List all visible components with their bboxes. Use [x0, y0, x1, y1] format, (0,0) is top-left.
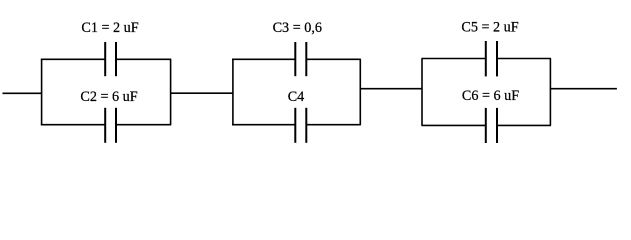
capacitor C5 — [486, 41, 497, 76]
node F (block3 right side) — [549, 59, 551, 126]
capacitor C3 — [295, 42, 306, 76]
wire block3 bottom-right — [497, 124, 551, 126]
node A (block1 left side) — [41, 59, 43, 124]
svg-text:C1 = 2 uF: C1 = 2 uF — [81, 20, 138, 36]
wire between block2 and block3 — [360, 88, 422, 90]
svg-text:C2 = 6 uF: C2 = 6 uF — [80, 89, 137, 105]
node B (block1 right side) — [170, 59, 172, 124]
wire block1 top-left — [41, 58, 105, 60]
wire block2 bottom-left — [232, 124, 295, 126]
svg-text:C5 = 2 uF: C5 = 2 uF — [461, 20, 518, 36]
wire block3 top-right — [497, 58, 551, 60]
wire input left — [3, 92, 42, 94]
node D (block2 right side) — [359, 59, 361, 124]
wire block3 top-left — [421, 58, 485, 60]
node C (block2 left side) — [232, 59, 234, 124]
wire block2 top-left — [232, 58, 295, 60]
svg-text:C6 = 6 uF: C6 = 6 uF — [462, 88, 519, 104]
wire output right — [550, 88, 617, 90]
svg-text:C3 = 0,6: C3 = 0,6 — [273, 20, 322, 36]
svg-text:C4: C4 — [288, 89, 305, 105]
capacitor C2 — [105, 108, 116, 143]
capacitor C4 — [295, 108, 306, 143]
capacitor C1 — [105, 42, 116, 76]
wire block1 top-right — [116, 58, 171, 60]
wire block3 bottom-left — [421, 124, 485, 126]
wire between block1 and block2 — [171, 92, 233, 94]
wire block2 top-right — [306, 58, 361, 60]
capacitor C6 — [486, 108, 497, 143]
wire block1 bottom-left — [41, 124, 105, 126]
node E (block3 left side) — [421, 59, 423, 126]
wire block1 bottom-right — [116, 124, 171, 126]
wire block2 bottom-right — [306, 124, 361, 126]
